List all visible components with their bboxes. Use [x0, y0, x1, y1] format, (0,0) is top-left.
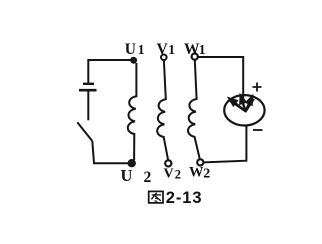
svg-text:1: 1 — [199, 42, 206, 57]
svg-text:2: 2 — [175, 168, 181, 182]
svg-text:2-13: 2-13 — [166, 189, 203, 207]
svg-text:1: 1 — [168, 42, 175, 57]
svg-text:W: W — [189, 165, 204, 181]
svg-text:U: U — [121, 166, 133, 185]
svg-text:1: 1 — [138, 42, 145, 57]
svg-text:W: W — [184, 41, 200, 58]
svg-text:U: U — [125, 41, 136, 58]
svg-text:2: 2 — [144, 169, 152, 186]
svg-text:V: V — [164, 167, 174, 182]
svg-text:2: 2 — [203, 167, 210, 182]
svg-text:V: V — [157, 41, 169, 58]
